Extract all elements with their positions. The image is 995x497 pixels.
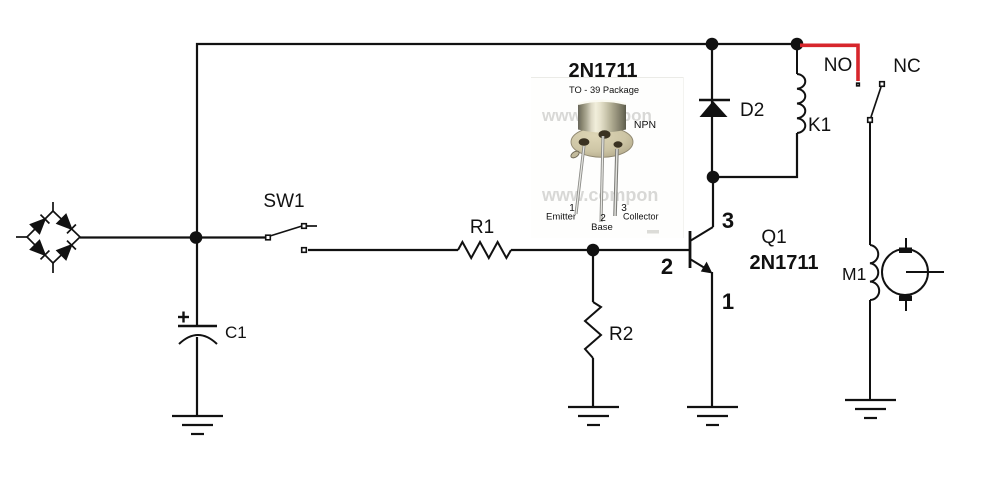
svg-text:Emitter: Emitter: [546, 212, 576, 223]
svg-text:NC: NC: [893, 56, 920, 77]
label NC: [893, 56, 920, 77]
svg-text:3: 3: [722, 208, 734, 233]
Q1 collector stroke: [690, 227, 713, 241]
wire: bridge output to switch: [80, 236, 265, 238]
pin label 3 (collector): [722, 208, 734, 233]
wire: R1 to base node: [511, 249, 689, 251]
svg-text:www.compon: www.compon: [541, 185, 658, 205]
switch SW1: [266, 224, 317, 253]
Q1 base bar: [689, 231, 692, 268]
NC contact: [868, 82, 885, 123]
C1 bottom lead: [196, 337, 198, 416]
D2 triangle: [700, 101, 728, 117]
label K1: [808, 115, 831, 136]
hole pin 3: [614, 141, 623, 147]
stub bottom: [52, 263, 54, 273]
wire: R2 to ground: [592, 358, 594, 407]
wire: NC to motor: [869, 123, 871, 245]
M1 armature circle: [882, 249, 928, 295]
C1 top lead: [196, 237, 198, 326]
node: base junction dot: [587, 244, 600, 257]
diode D2: [699, 44, 730, 177]
wire: K1 bottom to node: [713, 133, 797, 177]
node: D2 top junction dot: [706, 38, 719, 51]
photo title 2N1711: [569, 60, 638, 82]
svg-text:R1: R1: [470, 217, 494, 238]
can top rim highlight: [578, 101, 626, 104]
K1 coil: [797, 74, 805, 133]
can cylinder: [578, 101, 626, 133]
ground (R2): [568, 407, 619, 425]
diamond outline: [27, 211, 80, 263]
M1 top brush: [899, 248, 912, 254]
photo pin label Base: [591, 222, 613, 233]
hole pin 1: [579, 138, 590, 146]
diode D-B top-right: [57, 215, 76, 234]
watermark line 1: [541, 106, 652, 125]
photo pin 1 number: [569, 203, 575, 214]
M1 field coil: [870, 245, 879, 300]
SW1 stub right: [306, 225, 317, 227]
node: K1 top junction dot: [791, 38, 804, 51]
leg 1 emitter: [576, 146, 584, 214]
photo pin 2 number: [600, 213, 606, 224]
SW1 lower terminal: [302, 248, 307, 253]
Q1 emitter stroke: [690, 259, 708, 270]
svg-text:Q1: Q1: [761, 227, 786, 248]
wire: switch to R1: [308, 249, 458, 251]
label NO: [824, 55, 853, 76]
svg-text:C1: C1: [225, 323, 247, 342]
label M1: [842, 264, 866, 284]
svg-text:NO: NO: [824, 55, 853, 76]
diode D-C bottom-left: [31, 241, 50, 260]
wire: top supply rail: [197, 44, 797, 237]
photo background panel: [531, 77, 684, 238]
SW1 left terminal: [266, 235, 271, 240]
label SW1: [263, 191, 304, 212]
K1 top lead: [796, 44, 798, 74]
photo pin label Emitter: [546, 212, 576, 223]
bridge rectifier BR1: [16, 202, 80, 273]
svg-text:Base: Base: [591, 222, 613, 233]
C1 plus sign: [178, 312, 189, 323]
Q1 emitter arrowhead: [701, 262, 713, 274]
resistor R1: [458, 242, 511, 258]
stub top: [52, 202, 54, 211]
transistor Q1: [690, 227, 713, 274]
ground (C1): [172, 416, 223, 434]
svg-text:K1: K1: [808, 115, 831, 136]
TO-39 package photo: [570, 101, 633, 222]
SW1 upper terminal: [302, 224, 307, 229]
label D2: [740, 100, 764, 121]
svg-text:NPN: NPN: [634, 119, 656, 131]
tiny watermark id: [647, 230, 659, 234]
can flange disc: [571, 127, 633, 158]
D2 cathode bar: [699, 99, 730, 102]
M1 top brush stub: [905, 238, 907, 248]
pin label 1 (emitter): [722, 289, 734, 314]
svg-text:TO - 39 Package: TO - 39 Package: [569, 85, 639, 95]
svg-text:D2: D2: [740, 100, 764, 121]
pin label 2 (base): [661, 254, 673, 279]
NC upper terminal: [880, 82, 885, 87]
svg-text:1: 1: [722, 289, 734, 314]
wire: node to R2: [592, 250, 594, 302]
flange shadow under can: [578, 128, 626, 132]
svg-text:SW1: SW1: [263, 191, 304, 212]
motor M1: [870, 238, 944, 311]
M1 shaft line: [906, 271, 944, 273]
diode D-A top-left: [31, 215, 50, 234]
leg 2 base: [601, 136, 603, 222]
ground (M1): [845, 400, 896, 418]
SW1 blade: [270, 226, 302, 236]
stub left: [16, 236, 27, 238]
wire: emitter down to ground: [711, 272, 713, 407]
NO terminal: [857, 83, 860, 86]
node: flyback bottom junction dot: [707, 171, 720, 184]
watermark line 2: [541, 185, 658, 205]
hole pin 2: [599, 130, 611, 138]
photo pin 3 number: [621, 203, 627, 214]
photo pin label Collector: [623, 212, 659, 222]
M1 bottom brush: [899, 296, 912, 302]
wire: collector up to flyback node: [712, 177, 714, 227]
node: supply junction dot: [190, 231, 203, 244]
value label 2N1711 (Q1): [750, 252, 819, 274]
wire: NO red wire: [800, 45, 858, 81]
ground (Q1 emitter): [687, 407, 738, 425]
C1 positive plate: [178, 325, 217, 327]
svg-text:Collector: Collector: [623, 212, 659, 222]
D2 lead: [711, 44, 713, 177]
wire: motor to ground: [869, 300, 871, 400]
label NPN: [634, 119, 656, 131]
svg-text:2N1711: 2N1711: [569, 60, 638, 82]
label C1: [225, 323, 247, 342]
capacitor C1: [178, 237, 217, 416]
relay coil K1: [797, 44, 805, 133]
diode D-D bottom-right: [57, 241, 76, 260]
label R1: [470, 217, 494, 238]
NC lower terminal: [868, 118, 873, 123]
C1 curved plate: [179, 335, 217, 344]
label Q1: [761, 227, 786, 248]
NC blade: [871, 87, 881, 117]
label R2: [609, 324, 633, 345]
mounting tab: [570, 150, 581, 160]
M1 bottom brush stub: [905, 300, 907, 311]
svg-text:R2: R2: [609, 324, 633, 345]
svg-text:2N1711: 2N1711: [750, 252, 819, 274]
leg 3 collector: [615, 149, 617, 216]
photo subtitle TO-39 Package: [569, 85, 639, 95]
svg-text:M1: M1: [842, 264, 866, 284]
resistor R2: [585, 302, 601, 358]
svg-text:2: 2: [661, 254, 673, 279]
